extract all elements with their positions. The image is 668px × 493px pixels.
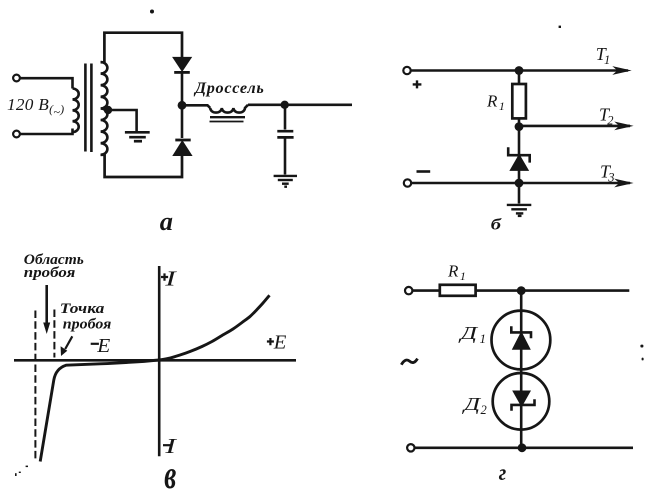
secondary winding S1 (101, 62, 108, 155)
arrowhead T1 (612, 66, 631, 75)
terminal circle bottom (g) (407, 444, 414, 451)
resistor R1 (b) (512, 84, 526, 118)
node 2 (b) (515, 122, 524, 131)
svg-text:Точка: Точка (60, 301, 105, 317)
zener D1 triangle (514, 334, 529, 349)
label +I (161, 266, 177, 290)
stray mark right 1 (640, 345, 643, 348)
terminal circle minus (b) (404, 179, 411, 186)
node top (g) (517, 286, 526, 295)
svg-text:Т2: Т2 (599, 105, 613, 128)
ground (filter capacitor) (274, 176, 297, 187)
svg-text:120 В(~): 120 В(~) (7, 95, 64, 119)
bottom bus wire (g) (415, 446, 634, 449)
zener D2 triangle (514, 392, 528, 405)
arrow to breakdown point (shaft and head) (61, 336, 73, 356)
dashed line breakdown point (53, 310, 55, 358)
node 3 (b) (515, 179, 524, 188)
choke core line 2 (210, 121, 244, 123)
stray dot top center (150, 10, 154, 14)
wire: primary bottom to input terminal (20, 129, 73, 135)
wire: D2 to bottom node (520, 372, 523, 448)
stray mark bottom left 1 (26, 466, 28, 468)
choke L1 (210, 105, 248, 113)
output wire (a) (285, 104, 352, 107)
svg-text:R1: R1 (447, 261, 466, 283)
wire: node to choke (182, 105, 210, 108)
terminal circle input bottom (a) (13, 131, 20, 138)
stray mark right 2 (642, 358, 644, 361)
svg-text:Дроссель: Дроссель (193, 79, 265, 97)
wire: node2 to zener (518, 127, 521, 183)
capacitor C1 plate 2 (277, 136, 293, 139)
T2 bus wire (519, 125, 630, 128)
svg-text:пробоя: пробоя (24, 265, 76, 281)
svg-text:Е: Е (96, 335, 110, 357)
wire: capacitor to ground (284, 137, 287, 174)
wire: node to D1 circle (520, 291, 523, 312)
terminal circle input top (a) (13, 75, 20, 82)
wire: top rail secondary to diode branch (104, 33, 182, 63)
wire: top input to primary winding (20, 78, 73, 88)
tilde AC symbol (401, 359, 417, 365)
circle of diode D2 (g) (493, 373, 550, 430)
arrowhead T2 (614, 122, 633, 131)
transformer core line 1 (84, 64, 87, 152)
svg-text:Е: Е (273, 332, 287, 354)
diode D2 cathode bar (175, 139, 190, 142)
wire: node3 to ground (518, 183, 521, 204)
minus sign (417, 170, 431, 173)
zener IV curve (40, 295, 269, 461)
svg-text:Т1: Т1 (596, 44, 610, 67)
center tap node dot (104, 106, 112, 114)
node 1 (b) (515, 66, 524, 75)
diode D1 top (a) (175, 58, 190, 69)
graph horizontal axis E (14, 359, 296, 362)
plus sign (413, 80, 422, 88)
zener D2 bar (512, 399, 535, 411)
ground (b) (507, 205, 532, 216)
label -E (91, 335, 111, 357)
ground (transformer center tap) (125, 132, 150, 141)
circle of diode D1 (g) (492, 311, 551, 370)
svg-text:а: а (160, 207, 173, 236)
choke core line 1 (210, 116, 245, 118)
svg-text:R1: R1 (486, 91, 505, 113)
svg-text:Д1: Д1 (458, 323, 486, 346)
wire: secondary bottom to bottom rail (101, 155, 182, 177)
svg-text:г: г (499, 460, 507, 485)
arrow to breakdown region (shaft and head) (43, 285, 50, 334)
bottom bus wire T3 (411, 182, 630, 185)
svg-text:пробоя: пробоя (63, 316, 112, 332)
capacitor C1 plate 1 (277, 130, 293, 133)
wire: D1 to output node (181, 72, 184, 105)
wire: node through D2 (181, 105, 184, 138)
transformer core line 2 (90, 64, 93, 153)
svg-text:I: I (164, 266, 178, 290)
wire: terminal to resistor (g) (412, 289, 440, 292)
diode D1 cathode bar (174, 71, 190, 74)
svg-text:б: б (491, 217, 502, 234)
wire: node1 to resistor (518, 71, 521, 85)
wire: choke to filter node (248, 104, 285, 107)
filter node dot (281, 101, 289, 109)
wire: center tap to ground (108, 110, 137, 131)
wire: node to capacitor (284, 105, 287, 130)
node bottom (g) (518, 443, 527, 452)
primary winding P1 (73, 89, 79, 133)
terminal circle plus (b) (403, 67, 410, 74)
dashed line breakdown region (34, 311, 36, 460)
graph vertical axis I (158, 266, 161, 456)
zener VD1 triangle (b) (512, 156, 527, 169)
top bus wire T1 (411, 69, 628, 72)
svg-text:в: в (164, 454, 176, 493)
stray mark bottom left 3 (15, 473, 17, 476)
diode D2 bottom (a) (175, 142, 191, 154)
label -I (163, 434, 177, 458)
stray dot near b top (559, 26, 561, 28)
terminal circle top (g) (405, 287, 412, 294)
stray mark bottom left 2 (19, 472, 21, 473)
wire: resistor to node2 (518, 118, 521, 126)
wire through D1 (520, 312, 523, 372)
svg-text:Т3: Т3 (600, 162, 614, 185)
zener VD1 bar (b) (508, 147, 530, 162)
rectifier output node dot (178, 101, 187, 110)
arrowhead T3 (614, 179, 633, 188)
svg-text:Д2: Д2 (461, 394, 487, 417)
resistor R1 (g) (440, 285, 476, 296)
wire: secondary top connector (101, 61, 105, 64)
zener D1 bar (511, 326, 531, 338)
wire: resistor to right end (g) (475, 289, 629, 292)
label +E (267, 332, 287, 354)
